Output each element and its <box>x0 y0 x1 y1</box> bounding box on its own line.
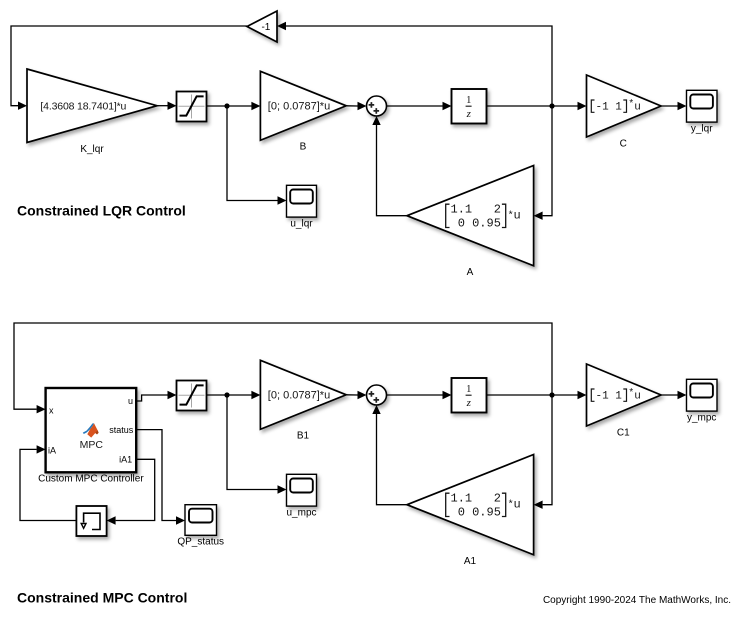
scope y_lqr <box>687 90 718 122</box>
svg-text:1: 1 <box>615 390 622 402</box>
svg-text:[0; 0.0787]*u: [0; 0.0787]*u <box>268 390 330 402</box>
svg-text:-1: -1 <box>596 390 610 402</box>
svg-text:z: z <box>466 397 472 409</box>
MATLAB logo <box>83 423 94 434</box>
svg-text:0: 0 <box>458 505 465 519</box>
node N3 junction dot <box>549 392 554 397</box>
scope y_mpc <box>687 379 718 411</box>
gain B1 <box>260 360 346 429</box>
svg-text:y_mpc: y_mpc <box>687 412 716 423</box>
wire gain C to scope y_lqr <box>661 102 687 110</box>
node N4 junction dot <box>224 392 229 397</box>
svg-text:u: u <box>634 390 641 402</box>
svg-text:u_lqr: u_lqr <box>290 218 313 229</box>
saturation S1 <box>177 92 207 122</box>
svg-text:0: 0 <box>458 216 465 230</box>
svg-text:u: u <box>514 209 521 223</box>
svg-text:u: u <box>634 101 641 113</box>
gain G-1 (-1, left-pointing) <box>247 11 277 42</box>
wire feedback from node N1 up-left to gain G-1 input <box>277 22 552 106</box>
svg-text:status: status <box>109 425 134 435</box>
wire gain C1 to scope y_mpc <box>661 391 687 399</box>
scope QP_status <box>185 505 217 536</box>
svg-text:1.1: 1.1 <box>451 203 473 217</box>
svg-text:2: 2 <box>494 492 501 506</box>
svg-text:u: u <box>514 498 521 512</box>
svg-text:MPC: MPC <box>80 439 104 451</box>
wire gain B1 to sum SUM2 <box>346 391 366 399</box>
svg-text:[4.3608 18.7401]*u: [4.3608 18.7401]*u <box>40 100 126 112</box>
svg-text:A1: A1 <box>464 556 477 567</box>
subsystem U1 Custom MPC Controller <box>46 388 137 472</box>
wire gain A output to sum SUM1 lower input <box>372 116 407 216</box>
svg-text:1: 1 <box>466 95 471 106</box>
node N1 junction dot <box>549 103 554 108</box>
scope u_mpc <box>287 474 317 506</box>
svg-text:1.1: 1.1 <box>451 492 473 506</box>
svg-text:1: 1 <box>615 101 622 113</box>
svg-text:QP_status: QP_status <box>177 537 224 548</box>
gain C1 <box>587 364 662 426</box>
wire saturation S1 to gain B with node N2 <box>207 102 261 110</box>
svg-text:0.95: 0.95 <box>472 505 501 519</box>
sum SUM1 <box>367 96 387 116</box>
svg-text:K_lqr: K_lqr <box>80 144 104 155</box>
wire MPC status output to scope QP_status <box>136 430 185 525</box>
svg-text:y_lqr: y_lqr <box>691 123 713 134</box>
wire node N3 down to gain A1 input <box>534 395 552 509</box>
wire node N1 down to gain A input <box>534 106 552 220</box>
svg-text:A: A <box>467 267 474 278</box>
wire node N4 down to scope u_mpc <box>227 395 287 494</box>
wire unit delay D1 to gain C with node N1 <box>487 102 587 110</box>
svg-text:iA: iA <box>48 445 56 455</box>
svg-text:z: z <box>466 108 472 120</box>
wire unit delay D2 to gain C1 with node N3 <box>487 391 587 399</box>
svg-text:Custom MPC Controller: Custom MPC Controller <box>38 474 144 485</box>
wire sum SUM2 to unit delay D2 <box>387 391 452 399</box>
sum SUM2 <box>367 385 387 405</box>
gain A1 (left-pointing, matrix) <box>407 455 534 555</box>
svg-text:x: x <box>49 405 54 415</box>
svg-text:Copyright 1990-2024 The MathWo: Copyright 1990-2024 The MathWorks, Inc. <box>543 595 731 606</box>
scope u_lqr <box>287 185 317 217</box>
unit delay D1 (1/z) <box>452 89 487 124</box>
node N2 junction dot <box>224 103 229 108</box>
wire gain B to sum SUM1 <box>346 102 366 110</box>
svg-text:Constrained MPC Control: Constrained MPC Control <box>17 589 187 605</box>
wire from gain G-1 output left and down to gain K_lqr input <box>11 26 247 110</box>
svg-text:[0; 0.0787]*u: [0; 0.0787]*u <box>268 101 330 113</box>
unit delay D2 (1/z) <box>452 378 487 413</box>
svg-text:-1: -1 <box>596 101 610 113</box>
wire memory M1 output to MPC iA input <box>20 445 76 520</box>
svg-text:iA1: iA1 <box>119 454 132 464</box>
svg-text:B: B <box>300 142 307 153</box>
svg-text:B1: B1 <box>297 431 310 442</box>
wire MPC iA1 output to memory M1 input <box>107 459 155 524</box>
svg-text:C: C <box>620 138 627 149</box>
memory M1 <box>76 506 106 536</box>
gain C <box>587 75 662 137</box>
svg-text:-1: -1 <box>261 22 270 33</box>
wire node N2 down to scope u_lqr <box>227 106 287 205</box>
gain K_lqr <box>27 69 157 143</box>
saturation S2 <box>177 381 207 411</box>
svg-text:C1: C1 <box>617 427 630 438</box>
svg-text:0.95: 0.95 <box>472 216 501 230</box>
svg-text:Constrained LQR Control: Constrained LQR Control <box>17 203 186 219</box>
svg-text:u_mpc: u_mpc <box>286 507 316 518</box>
gain A (left-pointing, matrix) <box>407 166 534 266</box>
svg-text:u: u <box>128 396 133 406</box>
gain B <box>260 71 346 140</box>
wire feedback from node N3 up-left-down to MPC x input <box>14 323 552 413</box>
svg-text:2: 2 <box>494 203 501 217</box>
wire MPC u output to saturation S2 <box>136 391 176 401</box>
wire gain A1 output to sum SUM2 lower input <box>372 405 407 505</box>
wire K_lqr to saturation S1 <box>157 102 177 110</box>
svg-text:1: 1 <box>466 384 471 395</box>
wire saturation S2 to gain B1 with node N4 <box>207 391 261 399</box>
wire sum SUM1 to unit delay D1 <box>387 102 452 110</box>
